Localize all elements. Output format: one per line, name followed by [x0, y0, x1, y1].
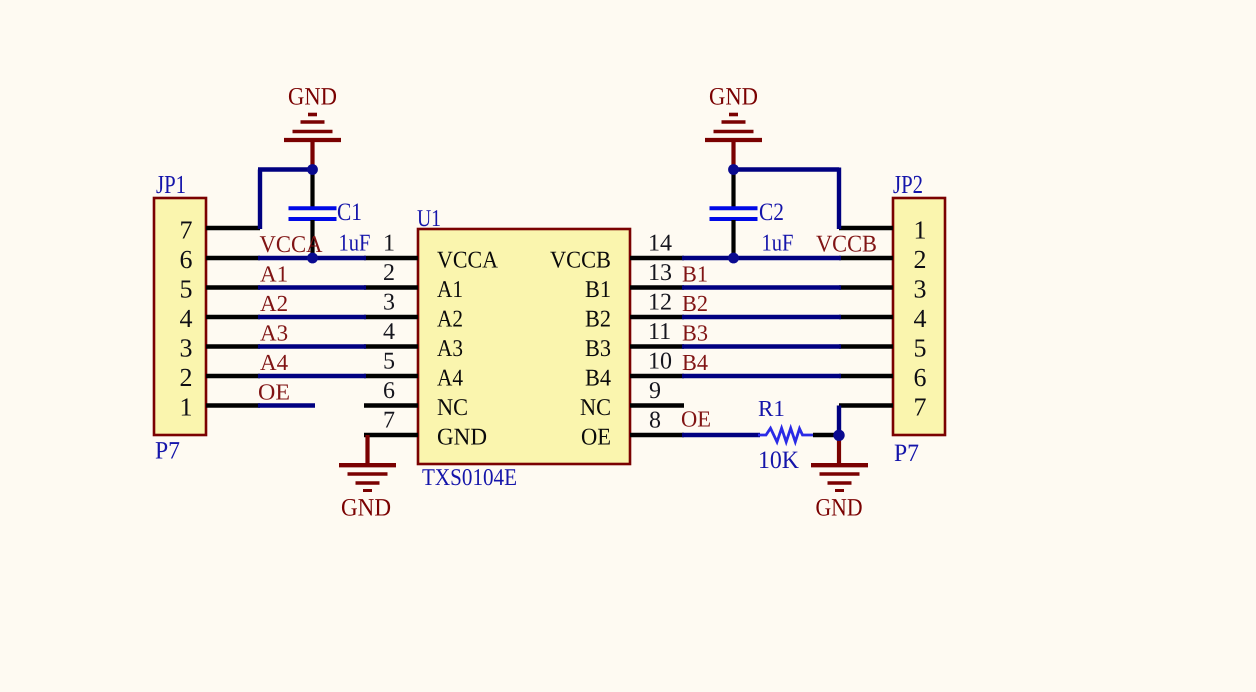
svg-text:B1: B1: [585, 277, 611, 303]
JP2 pin 3 stub: [839, 285, 893, 290]
svg-text:6: 6: [914, 363, 927, 392]
U1 right pin numbers 14-8: [648, 231, 672, 434]
wire B4 net row: [682, 374, 841, 378]
svg-text:1: 1: [914, 216, 927, 245]
JP1 pin 1 stub: [206, 403, 260, 408]
svg-text:A1: A1: [260, 262, 288, 287]
svg-text:NC: NC: [437, 395, 468, 421]
svg-text:6: 6: [180, 245, 193, 274]
svg-text:JP2: JP2: [893, 170, 923, 199]
U1 pin 6 stub: [364, 403, 418, 408]
resistor R1: [758, 428, 813, 442]
svg-text:VCCA: VCCA: [437, 248, 499, 274]
svg-text:P7: P7: [894, 440, 919, 467]
svg-text:4: 4: [180, 304, 193, 333]
svg-text:OE: OE: [681, 407, 711, 432]
svg-text:B2: B2: [585, 307, 611, 333]
svg-text:A2: A2: [437, 307, 463, 333]
svg-text:P7: P7: [155, 438, 180, 465]
svg-text:GND: GND: [341, 495, 391, 522]
svg-text:OE: OE: [258, 380, 290, 405]
svg-text:1uF: 1uF: [762, 231, 794, 257]
svg-text:5: 5: [914, 334, 927, 363]
wire GND horizontal to C1 top: [258, 167, 313, 171]
wire VCCB net row: [682, 256, 841, 260]
U1 pin 14 stub: [630, 256, 684, 261]
svg-text:B1: B1: [682, 262, 708, 287]
svg-text:7: 7: [383, 408, 395, 434]
ground symbol bottom-left: [339, 435, 396, 491]
U1 pin 2 stub: [364, 285, 418, 290]
svg-text:R1: R1: [758, 396, 785, 421]
JP1 pin 5 stub: [206, 285, 260, 290]
JP2 pin 1 stub: [839, 226, 893, 231]
capacitor C2: [710, 171, 758, 258]
U1 pin 1 stub: [364, 256, 418, 261]
JP2 pin 6 stub: [839, 374, 893, 379]
JP2 pin 5 stub: [839, 344, 893, 349]
U1 pin 10 stub: [630, 374, 684, 379]
wire R1 to junction: [813, 433, 839, 438]
U1 pin 13 stub: [630, 285, 684, 290]
junction dot at R1/GND/JP2 pin7: [833, 430, 844, 441]
svg-text:NC: NC: [580, 395, 611, 421]
JP1 pin 2 stub: [206, 374, 260, 379]
svg-text:A4: A4: [260, 350, 289, 375]
svg-text:5: 5: [383, 349, 395, 375]
svg-text:JP1: JP1: [156, 170, 186, 199]
svg-text:C1: C1: [337, 199, 362, 226]
svg-text:12: 12: [648, 290, 672, 316]
svg-text:A2: A2: [260, 291, 288, 316]
svg-text:B3: B3: [585, 336, 611, 362]
svg-text:6: 6: [383, 378, 395, 404]
JP2 pin numbers 1-7: [914, 216, 927, 422]
connector JP2: [893, 198, 945, 435]
U1 left pin names: [437, 248, 499, 451]
svg-text:GND: GND: [288, 84, 337, 111]
svg-text:3: 3: [383, 290, 395, 316]
wire OE net left stub: [258, 403, 315, 407]
svg-text:A1: A1: [437, 277, 463, 303]
svg-text:2: 2: [383, 260, 395, 286]
svg-text:B2: B2: [682, 291, 708, 316]
JP1 pin 4 stub: [206, 315, 260, 320]
svg-text:A4: A4: [437, 366, 463, 392]
svg-text:7: 7: [914, 393, 927, 422]
wire junction up to JP2 pin7: [837, 406, 841, 436]
wire GND to JP1 pin7 vertical: [258, 170, 262, 230]
svg-text:VCCB: VCCB: [816, 232, 877, 258]
JP1 pin 7 stub: [206, 226, 260, 231]
wire B1 net row: [682, 285, 841, 289]
connector JP1: [154, 198, 206, 435]
svg-text:2: 2: [180, 363, 193, 392]
svg-text:GND: GND: [437, 425, 487, 451]
U1 pin 3 stub: [364, 315, 418, 320]
wire OE to R1: [682, 433, 760, 437]
svg-text:5: 5: [180, 275, 193, 304]
ground symbol bottom-right: [811, 435, 868, 491]
wire VCCA net row: [258, 256, 366, 260]
wire B3 net row: [682, 344, 841, 348]
svg-text:8: 8: [649, 408, 661, 434]
capacitor C1: [289, 171, 337, 258]
svg-text:4: 4: [383, 319, 395, 345]
svg-text:9: 9: [649, 378, 661, 404]
wire VCCB vertical drop to JP2 pin1: [837, 168, 841, 230]
svg-text:2: 2: [914, 245, 927, 274]
wire A4 net row: [258, 374, 366, 378]
svg-text:10K: 10K: [758, 447, 799, 474]
svg-text:B4: B4: [682, 350, 708, 375]
svg-text:C2: C2: [759, 199, 784, 226]
ground symbol top-right: [705, 115, 762, 171]
wire B2 net row: [682, 315, 841, 319]
svg-text:1uF: 1uF: [339, 231, 371, 257]
U1 pin 11 stub: [630, 344, 684, 349]
U1 pin 4 stub: [364, 344, 418, 349]
U1 pin 8 stub: [630, 433, 684, 438]
svg-text:3: 3: [914, 275, 927, 304]
svg-text:VCCA: VCCA: [260, 232, 324, 258]
svg-text:GND: GND: [709, 84, 758, 111]
svg-text:A3: A3: [260, 321, 288, 346]
U1 pin 12 stub: [630, 315, 684, 320]
U1 pin 9 stub: [630, 403, 684, 408]
JP2 pin 4 stub: [839, 315, 893, 320]
svg-text:1: 1: [180, 393, 193, 422]
svg-text:4: 4: [914, 304, 927, 333]
ground symbol top-left: [284, 115, 341, 171]
svg-text:B4: B4: [585, 366, 611, 392]
junction dot at VCCA/C1 bottom: [307, 253, 318, 264]
svg-text:3: 3: [180, 334, 193, 363]
wire GND2 horizontal to JP2 drop: [734, 167, 840, 171]
svg-text:A3: A3: [437, 336, 463, 362]
svg-text:B3: B3: [682, 321, 708, 346]
junction dot at VCCB/C2 bottom: [728, 253, 739, 264]
svg-text:TXS0104E: TXS0104E: [422, 465, 517, 491]
IC U1: [418, 229, 630, 464]
junction dot at GND1/C1 top: [307, 164, 318, 175]
svg-text:U1: U1: [417, 206, 441, 232]
wire A1 net row: [258, 285, 366, 289]
JP1 pin 6 stub: [206, 256, 260, 261]
svg-text:1: 1: [383, 231, 395, 257]
JP2 pin 7 stub: [839, 403, 893, 408]
svg-text:OE: OE: [581, 425, 611, 451]
svg-text:VCCB: VCCB: [550, 248, 611, 274]
svg-text:7: 7: [180, 216, 193, 245]
svg-text:13: 13: [648, 260, 672, 286]
wire A3 net row: [258, 344, 366, 348]
JP2 pin 2 stub: [839, 256, 893, 261]
junction dot at GND2/C2 top: [728, 164, 739, 175]
JP1 pin 3 stub: [206, 344, 260, 349]
svg-text:14: 14: [648, 231, 672, 257]
U1 pin 5 stub: [364, 374, 418, 379]
U1 left pin numbers 1-7: [383, 231, 395, 434]
svg-text:10: 10: [648, 349, 672, 375]
wire A2 net row: [258, 315, 366, 319]
svg-text:GND: GND: [816, 495, 863, 522]
JP1 pin numbers 7-1: [180, 216, 193, 422]
U1 pin 7 stub: [364, 433, 418, 438]
U1 right pin names: [550, 248, 611, 451]
svg-text:11: 11: [648, 319, 671, 345]
